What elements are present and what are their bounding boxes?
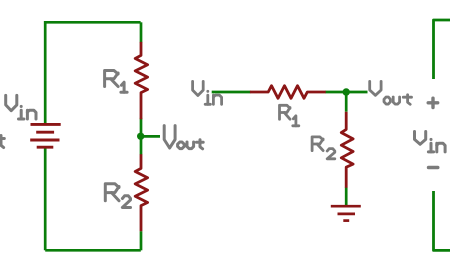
label U_out (left circuit) <box>164 126 175 148</box>
wire: U_out stub left circuit <box>141 135 160 138</box>
label R1 (left circuit) <box>105 71 119 87</box>
ground symbol (middle) <box>331 205 361 208</box>
wire: left circuit bottom <box>45 249 141 252</box>
label R2 (middle) <box>312 137 323 151</box>
wire: R2 to ground (middle) <box>345 187 348 206</box>
resistor R1 (left circuit) <box>135 42 147 119</box>
plus terminal sign <box>428 101 438 104</box>
wire: U_in to R1 (middle) <box>212 91 251 94</box>
node: junction dot middle circuit <box>343 88 350 95</box>
battery B1 (U_in source) <box>31 123 61 126</box>
wire: left circuit right vertical lower <box>140 231 143 250</box>
resistor R2 (left circuit) <box>135 154 147 231</box>
label U_out (middle) <box>370 81 381 95</box>
wire: left circuit left vertical lower <box>44 147 47 250</box>
wire: left circuit right vertical middle <box>140 118 143 155</box>
wire: right circuit bottom corner <box>434 191 450 250</box>
label R1 (middle) <box>280 105 291 119</box>
resistor R1 (middle, horizontal) <box>250 86 326 99</box>
label U_in (right circuit) <box>415 132 426 145</box>
wire: node to U_out stub (middle) <box>346 91 367 94</box>
wire: left circuit top <box>45 21 140 24</box>
wire: left circuit right vertical upper <box>140 22 143 42</box>
minus terminal sign <box>429 166 438 170</box>
wire: node down to R2 (middle) <box>345 92 348 112</box>
text fragment cropped at left edge <box>1 136 4 148</box>
node: junction dot left circuit <box>137 133 144 140</box>
label U_in (middle) <box>193 81 204 95</box>
label U_in (left circuit) <box>6 95 17 110</box>
label R2 (left circuit) <box>105 184 119 201</box>
wire: R1 to node (middle) <box>325 91 346 94</box>
wire: right circuit top corner <box>434 20 450 79</box>
resistor R2 (middle, vertical) <box>341 112 353 188</box>
wire: left circuit left vertical upper <box>44 21 47 124</box>
